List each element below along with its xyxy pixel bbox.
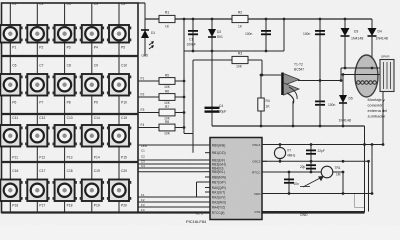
- speaker LS1: [355, 55, 378, 97]
- pushbutton P13: [53, 125, 77, 147]
- connector CN1: [380, 60, 394, 92]
- wire from pushbutton P10 bottom: [118, 96, 120, 115]
- wire to pushbutton P7 top: [36, 56, 38, 74]
- wire from pushbutton P17 bottom: [36, 201, 38, 213]
- pushbutton P4: [80, 25, 104, 43]
- wire C1 branch: [192, 18, 195, 21]
- wire: [368, 161, 370, 211]
- wire to pushbutton P9 top: [91, 56, 93, 74]
- pin RA1(S/T): [205, 191, 210, 193]
- pushbutton P8: [53, 74, 77, 96]
- resistor R3 line: [195, 59, 262, 61]
- keypad row bus 1: [2, 55, 139, 57]
- row wire F2: [138, 96, 184, 98]
- right vertical rails: [364, 126, 366, 213]
- wire to pushbutton P18 top: [64, 162, 66, 180]
- column wires to MCU: [138, 144, 205, 146]
- OSC2 line: [262, 160, 369, 162]
- row wire F4: [138, 127, 184, 129]
- wire R3 to MCU: [194, 59, 196, 61]
- wire to pushbutton P4 top: [91, 3, 93, 25]
- pushbutton P10: [107, 74, 131, 96]
- pin OSC2: [262, 160, 267, 162]
- wire to pushbutton P16 top: [9, 162, 11, 180]
- pushbutton P11: [0, 125, 23, 147]
- wire to pushbutton P3 top: [64, 3, 66, 25]
- pushbutton P5: [107, 25, 131, 43]
- wire to pushbutton P10 top: [118, 56, 120, 74]
- pin RA4(Y/Z): [205, 206, 210, 208]
- crystal XT1: [279, 145, 281, 148]
- wire to pushbutton P8 top: [64, 56, 66, 74]
- transistor pair T1 T2: [281, 73, 284, 96]
- diode D4: [371, 19, 373, 68]
- wire to pushbutton P19 top: [91, 162, 93, 180]
- pushbutton P2: [25, 25, 49, 43]
- resistor R5: [159, 78, 175, 85]
- wire from pushbutton P1 bottom: [9, 43, 11, 57]
- VDD line: [262, 193, 372, 195]
- resistor R7: [159, 109, 175, 116]
- pushbutton P7: [25, 74, 49, 96]
- wire from pushbutton P6 bottom: [9, 96, 11, 115]
- row wire F1: [138, 80, 184, 82]
- wire from pushbutton P18 bottom: [64, 201, 66, 213]
- wire from pushbutton P12 bottom: [36, 147, 38, 163]
- resistor R2: [232, 15, 248, 22]
- pushbutton P9: [80, 74, 104, 96]
- trimmer TR1: [321, 166, 333, 178]
- pin RB5(K/L): [205, 171, 210, 173]
- wire TR1 to VDD: [342, 172, 344, 194]
- pin VSS: [262, 211, 267, 213]
- wire connector down: [382, 92, 384, 145]
- diode D5: [342, 75, 344, 127]
- wire to pushbutton P2 top: [36, 3, 38, 25]
- pin RB3(G/H): [205, 163, 210, 165]
- wire from pushbutton P5 bottom: [118, 43, 120, 57]
- pin RB2(E/F): [205, 159, 210, 161]
- pin RTCC: [262, 171, 267, 173]
- pin RB7(O/P): [205, 181, 210, 183]
- resistor R1: [159, 15, 175, 22]
- wire from pushbutton P3 bottom: [64, 43, 66, 57]
- keypad row bus 2: [2, 113, 139, 115]
- resistor R8: [159, 124, 175, 131]
- wire to pushbutton P13 top: [64, 114, 66, 125]
- speaker wires: [341, 67, 381, 69]
- wire to pushbutton P17 top: [36, 162, 38, 180]
- pin RB0(A/B): [205, 144, 210, 146]
- wire pull-up column: [183, 18, 186, 21]
- pushbutton P3: [53, 25, 77, 43]
- pin RTCC(#): [205, 212, 210, 214]
- +V supply rail: [145, 18, 372, 20]
- wire: [283, 18, 286, 21]
- trimmer arrow: [303, 177, 323, 188]
- pushbutton P20: [107, 180, 131, 202]
- keypad frame: [2, 3, 139, 213]
- wire from pushbutton P16 bottom: [9, 201, 11, 213]
- capacitor C7: [310, 145, 312, 162]
- resistor R4: [260, 75, 262, 126]
- diode D1 (LED): [141, 29, 149, 31]
- capacitor C2: [265, 18, 268, 21]
- wire to pushbutton P20 top: [118, 162, 120, 180]
- pushbutton P17: [25, 180, 49, 202]
- capacitor C1: [188, 30, 198, 32]
- wire to pushbutton P11 top: [9, 114, 11, 125]
- mid rail: [184, 50, 284, 52]
- pushbutton P15: [107, 125, 131, 147]
- pushbutton P14: [80, 125, 104, 147]
- row wire F3: [138, 112, 184, 114]
- LED arrows: [149, 42, 153, 45]
- pin RB4(I/J): [205, 167, 210, 169]
- pushbutton P16: [0, 180, 23, 202]
- wire from pushbutton P11 bottom: [9, 147, 11, 163]
- wire to pushbutton P1 top: [9, 3, 11, 25]
- pushbutton P1: [0, 25, 23, 43]
- wire from pushbutton P20 bottom: [118, 201, 120, 213]
- wire to pushbutton P6 top: [9, 56, 11, 74]
- wire to base: [261, 60, 263, 75]
- wire from pushbutton P2 bottom: [36, 43, 38, 57]
- pushbutton P6: [0, 74, 23, 96]
- pushbutton P18: [53, 180, 77, 202]
- wire to pushbutton P15 top: [118, 114, 120, 125]
- wire LED branch: [144, 19, 146, 56]
- pushbutton P19: [80, 180, 104, 202]
- keypad row bus 4 (bottom, extended right): [2, 211, 365, 213]
- wire to pushbutton P5 top: [118, 3, 120, 25]
- wire to pushbutton P14 top: [91, 114, 93, 125]
- wire from pushbutton P14 bottom: [91, 147, 93, 163]
- keypad row bus 3: [2, 161, 139, 163]
- ground rail: [212, 125, 365, 127]
- capacitor C6: [315, 100, 325, 102]
- pin RA2(U/V): [205, 196, 210, 198]
- wire from pushbutton P15 bottom: [118, 147, 120, 163]
- emitter wire: [292, 101, 294, 126]
- pin RA3(W/X): [205, 201, 210, 203]
- resistor R6: [159, 94, 175, 101]
- wire keypad top to supply rail: [138, 2, 145, 4]
- faint pcb lines: [354, 194, 356, 208]
- pin RB1(C/D): [205, 152, 210, 154]
- wire from pushbutton P4 bottom: [91, 43, 93, 57]
- diode D2: [211, 18, 214, 21]
- lower wires to MCU: [138, 196, 205, 198]
- wire RB7 jog: [197, 181, 206, 183]
- pin RA0(Q/R): [205, 187, 210, 189]
- wire from pushbutton P9 bottom: [91, 96, 93, 115]
- OSC1 line: [262, 144, 383, 146]
- IC1 PIC16LF84: [210, 138, 262, 220]
- capacitor C4: [205, 107, 220, 109]
- pin RB6(M/N): [205, 176, 210, 178]
- wire from pushbutton P13 bottom: [64, 147, 66, 163]
- pushbutton P12: [25, 125, 49, 147]
- pin OSC1: [262, 144, 267, 146]
- capacitor C8: [310, 161, 312, 172]
- wire pullups to RB0: [184, 133, 193, 135]
- RTCC line: [262, 171, 321, 173]
- VSS line: [262, 211, 365, 213]
- capacitor C9: [288, 172, 290, 194]
- output wire: [298, 80, 341, 82]
- diode D3: [344, 18, 347, 21]
- pin VDD: [262, 193, 267, 195]
- wire from pushbutton P7 bottom: [36, 96, 38, 115]
- wire to pushbutton P12 top: [36, 114, 38, 125]
- capacitor C5 branch: [319, 18, 322, 21]
- wire from pushbutton P19 bottom: [91, 201, 93, 213]
- wire from pushbutton P8 bottom: [64, 96, 66, 115]
